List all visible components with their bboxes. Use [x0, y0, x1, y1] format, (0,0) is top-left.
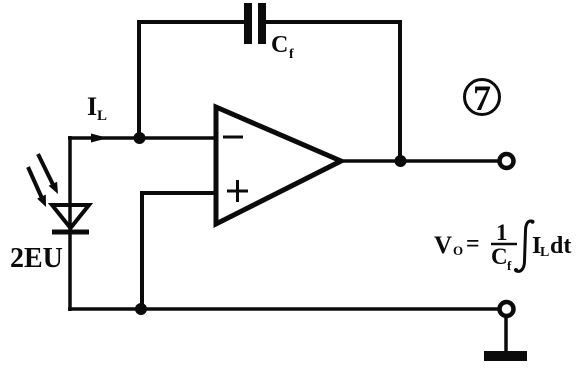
label circled 7 — [465, 78, 500, 118]
node junction output — [395, 155, 407, 167]
node junction inverting input — [134, 132, 146, 144]
light arrow 2 — [38, 154, 58, 194]
svg-text:L: L — [97, 108, 107, 124]
svg-text:C: C — [271, 32, 288, 58]
wire top feedback left segment — [137, 20, 245, 24]
wire non-inverting input horizontal — [142, 191, 217, 195]
svg-text:1: 1 — [496, 220, 508, 245]
ground symbol — [484, 351, 527, 361]
wire feedback right vertical — [398, 20, 402, 162]
node junction bottom — [135, 303, 147, 315]
photodiode 2EU — [52, 205, 89, 232]
light arrow 1 — [28, 167, 46, 207]
terminal ground circle — [500, 302, 514, 316]
terminal output circle — [500, 154, 514, 168]
svg-text:2EU: 2EU — [10, 243, 63, 274]
equation Vo = 1/Cf integral IL dt — [434, 220, 571, 273]
wire feedback left vertical — [137, 20, 141, 140]
svg-text:C: C — [491, 244, 508, 269]
svg-text:f: f — [289, 47, 294, 62]
wire inverting input — [68, 136, 217, 140]
svg-text:=: = — [466, 231, 480, 257]
svg-text:f: f — [507, 258, 512, 273]
svg-text:O: O — [453, 243, 463, 258]
svg-text:L: L — [540, 245, 549, 260]
current arrow IL — [91, 134, 108, 143]
wire top feedback right segment — [265, 20, 402, 24]
wire non-inverting input vertical — [140, 191, 144, 311]
op-amp U1 — [216, 107, 341, 224]
svg-text:V: V — [434, 232, 452, 259]
wire left branch upper — [68, 136, 72, 206]
svg-text:I: I — [87, 92, 97, 121]
capacitor Cf plates — [248, 3, 262, 44]
wire left branch lower — [68, 232, 72, 311]
wire ground lead — [504, 316, 508, 353]
wire output — [340, 159, 499, 163]
svg-text:7: 7 — [473, 78, 491, 118]
label IL — [87, 92, 107, 124]
wire bottom — [68, 307, 498, 311]
svg-text:dt: dt — [550, 233, 571, 259]
label Cf — [271, 32, 294, 62]
